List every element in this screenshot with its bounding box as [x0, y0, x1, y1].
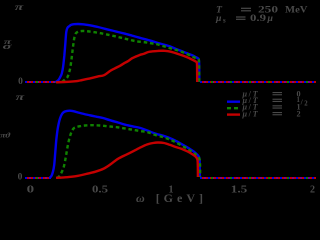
top panel curve mu/T=1/2 (blue solid)	[56, 24, 200, 82]
svg-text:0.5: 0.5	[92, 184, 108, 195]
svg-text:0: 0	[18, 77, 23, 87]
bottom panel zero line left segment	[25, 177, 51, 179]
top panel curve mu/T=2 (red solid)	[56, 51, 197, 83]
legend sample blue	[227, 100, 240, 102]
svg-text:π: π	[15, 3, 25, 13]
bottom panel curve mu/T=2 (red solid)	[56, 143, 198, 178]
top panel zero line right segment	[200, 81, 316, 83]
svg-text:πϑ: πϑ	[0, 132, 10, 140]
svg-text:μ: μ	[242, 109, 248, 118]
svg-text:0: 0	[18, 173, 23, 183]
svg-text:μ: μ	[267, 13, 274, 24]
svg-text:2: 2	[304, 101, 308, 108]
svg-text:π: π	[16, 93, 26, 103]
legend sample green dashed	[227, 107, 240, 109]
top panel zero line left segment (all curves overlapped at zero)	[25, 81, 56, 83]
top panel curve mu/T=1 (green dashed)	[62, 31, 199, 82]
svg-text:0.9: 0.9	[250, 13, 266, 24]
legend sample red	[227, 113, 240, 115]
bottom panel curve mu/T=1 (green dashed)	[57, 125, 200, 178]
svg-text:σ: σ	[3, 42, 13, 51]
svg-text:1.5: 1.5	[231, 184, 248, 195]
svg-text:μ: μ	[215, 13, 222, 24]
svg-text:MeV: MeV	[285, 5, 308, 16]
bottom panel curve mu/T=1/2 (blue solid)	[50, 111, 200, 178]
svg-text:0: 0	[27, 184, 35, 195]
svg-text:s: s	[223, 17, 226, 24]
svg-text:2: 2	[297, 109, 301, 118]
bottom panel zero line right segment	[200, 177, 316, 179]
svg-text:ω [GeV]: ω [GeV]	[136, 191, 207, 205]
svg-text:2: 2	[310, 184, 315, 195]
